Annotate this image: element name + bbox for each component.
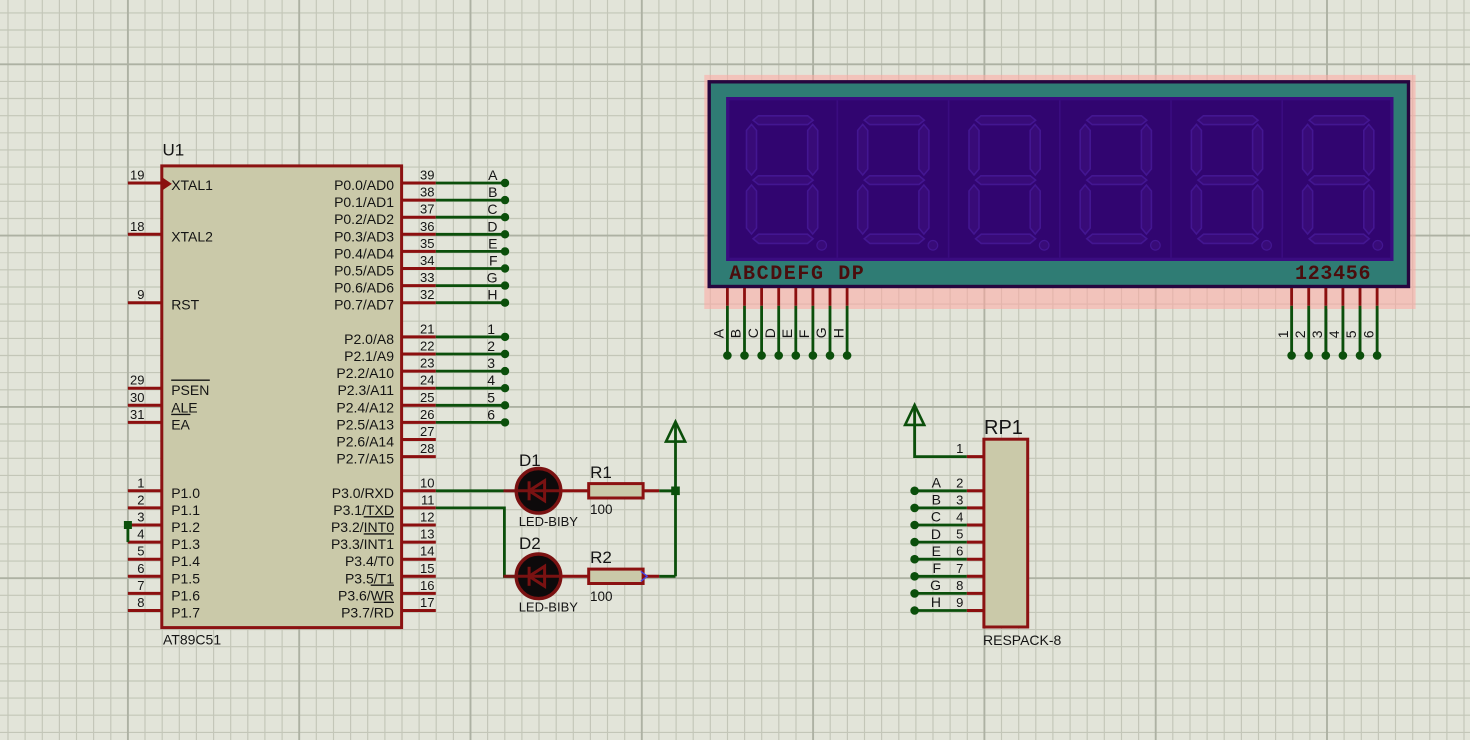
svg-text:P2.6/A14: P2.6/A14 xyxy=(336,434,394,450)
display segment pin G xyxy=(813,288,834,360)
junction at P1.2 pin xyxy=(124,521,132,529)
U1 pin 17 (P3.7/RD) xyxy=(341,595,436,621)
display segment pin C xyxy=(745,288,766,360)
svg-text:7: 7 xyxy=(956,561,963,576)
svg-text:D1: D1 xyxy=(519,451,541,470)
display digit-select pin 5 xyxy=(1343,288,1364,360)
svg-text:P2.3/A11: P2.3/A11 xyxy=(337,382,394,398)
svg-text:AT89C51: AT89C51 xyxy=(163,632,221,648)
svg-text:C: C xyxy=(487,201,497,217)
svg-text:G: G xyxy=(487,270,498,286)
svg-text:P1.0: P1.0 xyxy=(171,485,200,501)
RP1 pin 9 (node H) xyxy=(910,594,984,615)
display digit-select pin 4 xyxy=(1326,288,1347,360)
svg-text:P1.2: P1.2 xyxy=(171,519,200,535)
U1 pin 32 (P0.7/AD7) xyxy=(334,287,436,313)
wire P2.0 to node 1 xyxy=(436,321,509,341)
power terminal (VCC arrow) at R1/R2 rail xyxy=(666,422,685,491)
wire P0.7 to node H xyxy=(436,287,509,307)
svg-text:21: 21 xyxy=(420,321,434,336)
svg-text:1: 1 xyxy=(1275,330,1291,338)
svg-text:P1.1: P1.1 xyxy=(171,502,200,518)
wire R2 to vertical rail xyxy=(643,575,659,578)
U1 pin 31 (EA) xyxy=(128,407,191,433)
display digit-select pin 3 xyxy=(1309,288,1330,360)
display digit 2 xyxy=(858,116,938,250)
svg-text:EA: EA xyxy=(171,416,190,432)
U1 pin 37 (P0.2/AD2) xyxy=(334,202,436,228)
U1 pin 26 (P2.5/A13) xyxy=(336,407,435,433)
svg-text:F: F xyxy=(932,560,941,576)
svg-text:LED-BIBY: LED-BIBY xyxy=(519,514,579,529)
U1 pin 8 (P1.7) xyxy=(128,595,200,621)
svg-text:P1.7: P1.7 xyxy=(171,605,200,621)
U1 pin 11 (P3.1/TXD) xyxy=(333,492,436,518)
svg-text:4: 4 xyxy=(137,527,144,542)
svg-text:27: 27 xyxy=(420,424,434,439)
svg-text:3: 3 xyxy=(956,492,963,507)
resistor R2 xyxy=(589,569,643,583)
wire P0.1 to node B xyxy=(436,184,509,204)
svg-text:100: 100 xyxy=(590,589,613,604)
svg-text:A: A xyxy=(488,167,498,183)
wire P0.6 to node G xyxy=(436,270,509,290)
U1 pin 12 (P3.2/INT0) xyxy=(331,510,436,536)
svg-text:23: 23 xyxy=(420,356,434,371)
U1 pin 14 (P3.4/T0) xyxy=(345,544,436,570)
display segment pin B xyxy=(728,288,749,360)
svg-text:2: 2 xyxy=(487,338,495,354)
svg-text:P3.7/RD: P3.7/RD xyxy=(341,605,394,621)
wire P0.2 to node C xyxy=(436,201,509,221)
svg-text:22: 22 xyxy=(420,339,434,354)
wire junction to R2 row xyxy=(674,491,677,577)
svg-text:E: E xyxy=(488,235,497,251)
wire P0.0 to node A xyxy=(436,167,509,187)
wire P0.3 to node D xyxy=(436,218,509,238)
svg-text:9: 9 xyxy=(137,287,144,302)
svg-text:E: E xyxy=(779,329,795,338)
U1 pin 19 (XTAL1) xyxy=(128,168,213,194)
U1 pin 39 (P0.0/AD0) xyxy=(334,168,436,194)
svg-text:4: 4 xyxy=(1326,330,1342,338)
svg-text:D2: D2 xyxy=(519,534,541,553)
U1 pin 23 (P2.2/A10) xyxy=(336,356,435,382)
wire P2.4 to node 5 xyxy=(436,389,509,409)
svg-text:B: B xyxy=(728,329,744,338)
svg-text:34: 34 xyxy=(420,253,434,268)
wire D2 to R2 xyxy=(561,575,589,578)
svg-text:G: G xyxy=(930,577,941,593)
svg-text:31: 31 xyxy=(130,407,144,422)
svg-text:RP1: RP1 xyxy=(984,417,1023,439)
svg-text:1: 1 xyxy=(956,441,963,456)
svg-text:26: 26 xyxy=(420,407,434,422)
svg-text:17: 17 xyxy=(420,595,434,610)
svg-text:P3.1/TXD: P3.1/TXD xyxy=(333,502,394,518)
svg-text:18: 18 xyxy=(130,219,144,234)
svg-text:12: 12 xyxy=(420,510,434,525)
svg-text:ALE: ALE xyxy=(171,399,197,415)
wire P2.3 to node 4 xyxy=(436,372,509,392)
U1 pin 28 (P2.7/A15) xyxy=(336,441,435,467)
INT0 overline xyxy=(364,516,394,518)
svg-text:P2.0/A8: P2.0/A8 xyxy=(344,331,394,347)
U1 pin 6 (P1.5) xyxy=(128,561,200,587)
svg-text:D: D xyxy=(487,218,497,234)
svg-text:1: 1 xyxy=(137,475,144,490)
svg-text:4: 4 xyxy=(956,510,963,525)
svg-text:8: 8 xyxy=(137,595,144,610)
EA overline xyxy=(171,413,190,415)
svg-text:6: 6 xyxy=(137,561,144,576)
svg-text:P3.4/T0: P3.4/T0 xyxy=(345,553,394,569)
svg-text:P0.7/AD7: P0.7/AD7 xyxy=(334,297,394,313)
svg-text:6: 6 xyxy=(487,406,495,422)
IC U1 AT89C51 microcontroller body xyxy=(162,166,402,628)
svg-text:36: 36 xyxy=(420,219,434,234)
RP1 pin 6 (node E) xyxy=(910,543,984,564)
svg-text:5: 5 xyxy=(137,544,144,559)
display digit 1 xyxy=(747,116,827,250)
svg-text:38: 38 xyxy=(420,185,434,200)
display segment pin E xyxy=(779,288,800,360)
svg-text:A: A xyxy=(932,475,942,491)
display segment pin H xyxy=(830,288,851,360)
power terminal (VCC arrow) at RP1 xyxy=(905,405,924,425)
svg-text:6: 6 xyxy=(1360,330,1376,338)
svg-text:A: A xyxy=(711,328,727,338)
svg-text:H: H xyxy=(487,287,497,303)
svg-text:3: 3 xyxy=(487,355,495,371)
U1 pin 38 (P0.1/AD1) xyxy=(334,185,436,211)
svg-text:H: H xyxy=(830,328,846,338)
svg-text:RST: RST xyxy=(171,297,199,313)
svg-text:6: 6 xyxy=(956,544,963,559)
svg-text:9: 9 xyxy=(956,595,963,610)
svg-text:P2.1/A9: P2.1/A9 xyxy=(344,348,394,364)
svg-text:R1: R1 xyxy=(590,463,612,482)
XTAL1 clock input marker xyxy=(163,178,171,189)
U1 pin 9 (RST) xyxy=(128,287,200,313)
svg-text:2: 2 xyxy=(137,492,144,507)
display segment pin F xyxy=(796,288,817,360)
svg-text:P2.4/A12: P2.4/A12 xyxy=(336,399,394,415)
RD overline xyxy=(374,601,394,603)
svg-text:P0.5/AD5: P0.5/AD5 xyxy=(334,263,394,279)
resistor R1 xyxy=(589,484,643,498)
junction dot at R1 output xyxy=(671,487,680,496)
wire P3.0 to D1 xyxy=(436,489,504,492)
RP1 pin 1 xyxy=(956,441,984,457)
U1 pin 4 (P1.3) xyxy=(128,527,200,553)
svg-text:P0.3/AD3: P0.3/AD3 xyxy=(334,228,394,244)
wire RP1 pin1 to power xyxy=(915,407,967,457)
svg-text:P3.0/RXD: P3.0/RXD xyxy=(332,485,394,501)
display digit-select pin 2 xyxy=(1292,288,1313,360)
display digit-select pin 1 xyxy=(1275,288,1296,360)
svg-text:24: 24 xyxy=(420,373,434,388)
wire P3.1 down to D2 xyxy=(436,508,516,576)
RP1 pin 5 (node D) xyxy=(910,526,984,547)
svg-text:29: 29 xyxy=(130,373,144,388)
U1 pin 3 (P1.2) xyxy=(128,510,200,536)
svg-text:F: F xyxy=(489,253,498,269)
svg-text:25: 25 xyxy=(420,390,434,405)
svg-text:P2.2/A10: P2.2/A10 xyxy=(336,365,394,381)
svg-text:32: 32 xyxy=(420,287,434,302)
display digit 6 xyxy=(1303,116,1383,250)
svg-text:3: 3 xyxy=(1309,330,1325,338)
svg-text:P0.2/AD2: P0.2/AD2 xyxy=(334,211,394,227)
svg-text:XTAL2: XTAL2 xyxy=(171,228,213,244)
PSEN overline xyxy=(171,379,210,381)
svg-text:5: 5 xyxy=(956,527,963,542)
RP1 pin 8 (node G) xyxy=(910,577,984,598)
U1 pin 21 (P2.0/A8) xyxy=(344,321,436,347)
svg-text:15: 15 xyxy=(420,561,434,576)
svg-text:P3.6/WR: P3.6/WR xyxy=(338,587,394,603)
WR overline xyxy=(371,584,394,586)
U1 pin 10 (P3.0/RXD) xyxy=(332,475,436,501)
wire P2.5 to node 6 xyxy=(436,406,509,426)
display digit-select pin 6 xyxy=(1360,288,1381,360)
svg-text:28: 28 xyxy=(420,441,434,456)
U1 pin 27 (P2.6/A14) xyxy=(336,424,435,450)
svg-text:4: 4 xyxy=(487,372,495,388)
svg-text:PSEN: PSEN xyxy=(171,382,209,398)
RP1 pin 7 (node F) xyxy=(910,560,984,581)
svg-text:P2.7/A15: P2.7/A15 xyxy=(336,451,394,467)
RP1 pin 2 (node A) xyxy=(910,475,984,496)
svg-text:F: F xyxy=(796,330,812,339)
svg-text:7: 7 xyxy=(137,578,144,593)
svg-text:13: 13 xyxy=(420,527,434,542)
svg-text:2: 2 xyxy=(956,475,963,490)
digit cell divider lines xyxy=(837,100,1282,257)
svg-text:P2.5/A13: P2.5/A13 xyxy=(336,416,394,432)
svg-text:C: C xyxy=(745,328,761,338)
svg-text:D: D xyxy=(762,328,778,338)
display digit 4 xyxy=(1080,116,1160,250)
RP1 pin 4 (node C) xyxy=(910,509,984,530)
svg-text:P3.3/INT1: P3.3/INT1 xyxy=(331,536,394,552)
U1 pin 18 (XTAL2) xyxy=(128,219,213,245)
svg-text:P3.5/T1: P3.5/T1 xyxy=(345,570,394,586)
display digit 3 xyxy=(969,116,1049,250)
svg-text:H: H xyxy=(931,594,941,610)
U1 pin 22 (P2.1/A9) xyxy=(344,339,436,365)
svg-text:35: 35 xyxy=(420,236,434,251)
svg-text:XTAL1: XTAL1 xyxy=(171,177,213,193)
svg-text:P1.4: P1.4 xyxy=(171,553,200,569)
svg-text:P0.0/AD0: P0.0/AD0 xyxy=(334,177,394,193)
svg-text:P1.6: P1.6 xyxy=(171,587,200,603)
6-digit 7-segment display module xyxy=(704,75,1415,309)
U1 pin 5 (P1.4) xyxy=(128,544,200,570)
svg-text:14: 14 xyxy=(420,544,434,559)
svg-text:33: 33 xyxy=(420,270,434,285)
svg-text:37: 37 xyxy=(420,202,434,217)
svg-text:100: 100 xyxy=(590,502,613,517)
svg-text:E: E xyxy=(932,543,941,559)
svg-text:RESPACK-8: RESPACK-8 xyxy=(983,632,1062,648)
U1 pin 7 (P1.6) xyxy=(128,578,200,604)
svg-text:16: 16 xyxy=(420,578,434,593)
U1 pin 24 (P2.3/A11) xyxy=(337,373,435,399)
svg-text:P0.6/AD6: P0.6/AD6 xyxy=(334,280,394,296)
U1 pin 30 (ALE) xyxy=(128,390,198,416)
LED D1 xyxy=(504,469,562,514)
svg-text:LED-BIBY: LED-BIBY xyxy=(519,600,579,615)
svg-text:8: 8 xyxy=(956,578,963,593)
svg-text:1: 1 xyxy=(487,321,495,337)
U1 pin 36 (P0.3/AD3) xyxy=(334,219,436,245)
svg-text:G: G xyxy=(813,327,829,338)
LED D2 xyxy=(504,554,562,599)
U1 pin 33 (P0.6/AD6) xyxy=(334,270,436,296)
blue terminal marker at R2 xyxy=(641,571,647,581)
svg-text:R2: R2 xyxy=(590,548,612,567)
svg-text:B: B xyxy=(932,492,941,508)
wire linking P1.2 and P1.3 xyxy=(127,525,130,542)
svg-text:30: 30 xyxy=(130,390,144,405)
svg-text:10: 10 xyxy=(420,475,434,490)
svg-text:U1: U1 xyxy=(163,141,185,160)
svg-text:3: 3 xyxy=(137,510,144,525)
svg-text:P0.1/AD1: P0.1/AD1 xyxy=(334,194,394,210)
svg-text:ABCDEFG DP: ABCDEFG DP xyxy=(729,263,865,286)
U1 pin 13 (P3.3/INT1) xyxy=(331,527,436,553)
wire P2.2 to node 3 xyxy=(436,355,509,375)
wire P2.1 to node 2 xyxy=(436,338,509,358)
svg-text:5: 5 xyxy=(1343,330,1359,338)
wire P0.4 to node E xyxy=(436,235,509,255)
resistor pack RP1 body xyxy=(984,439,1028,627)
svg-text:5: 5 xyxy=(487,389,495,405)
wire D1 to R1 xyxy=(561,489,589,492)
svg-text:11: 11 xyxy=(421,492,435,507)
U1 pin 2 (P1.1) xyxy=(128,492,200,518)
svg-text:P1.5: P1.5 xyxy=(171,570,200,586)
wire P0.5 to node F xyxy=(436,253,509,273)
U1 pin 35 (P0.4/AD4) xyxy=(334,236,436,262)
svg-text:P3.2/INT0: P3.2/INT0 xyxy=(331,519,394,535)
svg-text:2: 2 xyxy=(1292,330,1308,338)
svg-text:B: B xyxy=(488,184,497,200)
INT1 overline xyxy=(364,533,394,535)
U1 pin 16 (P3.6/WR) xyxy=(338,578,436,604)
svg-text:P1.3: P1.3 xyxy=(171,536,200,552)
svg-text:D: D xyxy=(931,526,941,542)
display segment pin D xyxy=(762,288,783,360)
RP1 pin 3 (node B) xyxy=(910,492,984,513)
svg-text:39: 39 xyxy=(420,168,434,183)
display segment pin A xyxy=(711,288,732,360)
U1 pin 1 (P1.0) xyxy=(128,475,200,501)
display digit 5 xyxy=(1191,116,1271,250)
U1 pin 15 (P3.5/T1) xyxy=(345,561,436,587)
svg-text:19: 19 xyxy=(130,168,144,183)
svg-text:P0.4/AD4: P0.4/AD4 xyxy=(334,245,394,261)
wire R1 to junction xyxy=(643,489,659,492)
U1 pin 25 (P2.4/A12) xyxy=(336,390,435,416)
U1 pin 29 (PSEN) xyxy=(128,373,209,399)
svg-text:C: C xyxy=(931,509,941,525)
U1 pin 34 (P0.5/AD5) xyxy=(334,253,436,279)
svg-text:123456: 123456 xyxy=(1295,263,1371,286)
